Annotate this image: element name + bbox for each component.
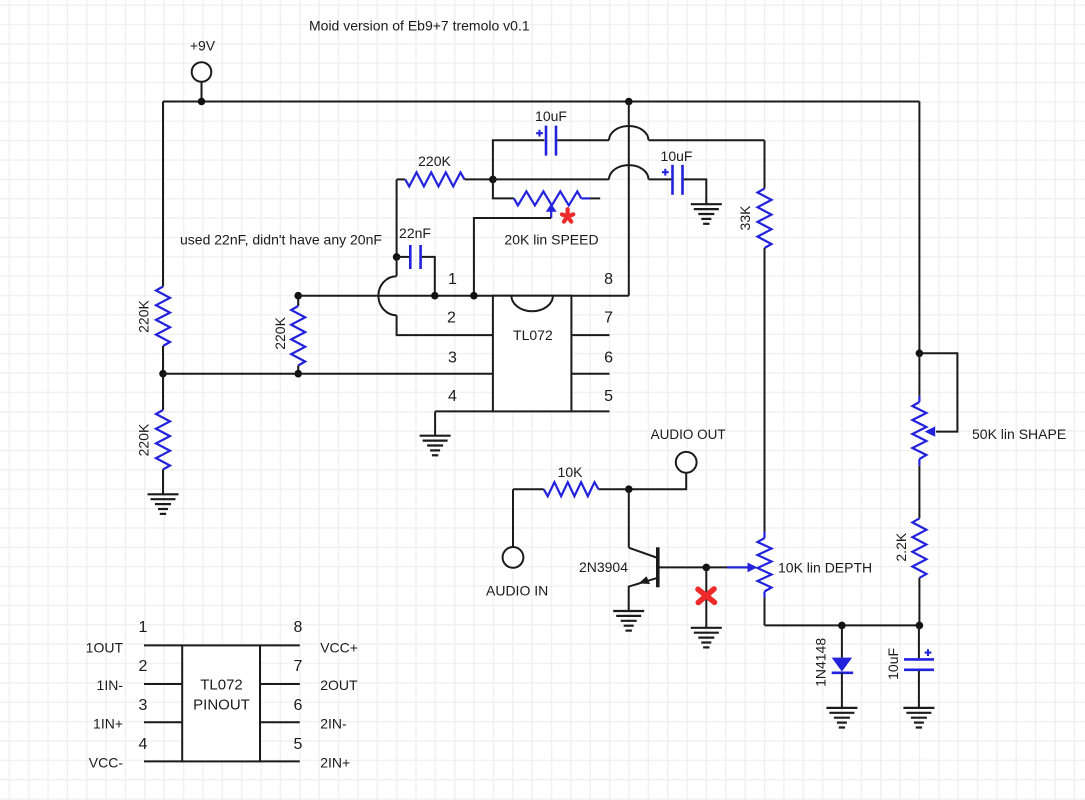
pin number 7 (604, 310, 613, 327)
resistor R3 220K middle (272, 296, 305, 374)
pinout label 1OUT (86, 640, 124, 656)
svg-text:3: 3 (139, 697, 148, 714)
svg-text:1OUT: 1OUT (86, 640, 124, 656)
wire bottom row (765, 624, 920, 626)
resistor R7 2.2K (893, 466, 926, 626)
potentiometer VR3 50K lin SHAPE (912, 353, 926, 466)
wire pinout pin6 (260, 721, 300, 723)
pin number 3 (448, 350, 457, 367)
power terminal +9V (190, 38, 216, 102)
svg-text:8: 8 (294, 619, 303, 636)
wiper arrow VR1 (474, 204, 557, 296)
pinout number 3 (139, 697, 148, 714)
pinout number 8 (294, 619, 303, 636)
pinout label 2IN+ (320, 755, 350, 771)
ground pin4 (420, 436, 451, 456)
svg-text:5: 5 (294, 736, 303, 753)
wire pinout pin4 (144, 760, 182, 762)
wire pinout pin1 (144, 644, 182, 646)
resistor R4 220K (397, 153, 493, 186)
svg-text:10uF: 10uF (535, 108, 567, 124)
pin number 4 (448, 388, 457, 405)
resistor R5 33K (737, 140, 771, 248)
junction top rail to pin8 branch (625, 98, 633, 106)
svg-text:1IN+: 1IN+ (93, 716, 123, 732)
ground diode (826, 708, 857, 728)
svg-text:33K: 33K (737, 205, 753, 231)
wire pin4 to ground (435, 411, 493, 435)
svg-text:TL072: TL072 (200, 677, 243, 694)
pinout label 1IN+ (93, 716, 123, 732)
pin number 8 (604, 271, 613, 288)
svg-text:VCC-: VCC- (89, 755, 124, 771)
svg-text:2.2K: 2.2K (893, 532, 909, 561)
svg-text:2IN+: 2IN+ (320, 755, 350, 771)
wire right rail down to SHAPE node (918, 102, 920, 354)
wiper loop VR3 (919, 353, 957, 437)
svg-text:20K lin SPEED: 20K lin SPEED (504, 231, 598, 247)
pinout number 7 (294, 658, 303, 675)
junction 22nF left node (393, 253, 401, 261)
svg-text:Moid version of Eb9+7 tremolo: Moid version of Eb9+7 tremolo v0.1 (309, 18, 530, 34)
op-amp U2 TL072 pinout box (182, 645, 260, 761)
junction 22nF right on pin1 wire (431, 292, 439, 300)
junction node pin3 left (159, 370, 167, 378)
potentiometer VR2 10K lin DEPTH (758, 532, 772, 626)
resistor R1 220K upper-left (135, 287, 170, 374)
junction base node (703, 564, 711, 572)
wire pinout pin7 (260, 683, 300, 685)
title text (309, 18, 530, 34)
junction diode node (838, 622, 846, 630)
svg-text:1N4148: 1N4148 (813, 638, 829, 687)
label VR1 (504, 231, 598, 247)
svg-text:220K: 220K (418, 153, 451, 169)
pinout number 1 (139, 619, 148, 636)
junction SHAPE top node (916, 350, 924, 358)
ground emitter (613, 611, 644, 631)
wire pin5 stub (571, 410, 609, 412)
svg-text:4: 4 (139, 736, 148, 753)
potentiometer VR1 20K lin SPEED (493, 179, 600, 205)
svg-text:AUDIO IN: AUDIO IN (486, 583, 548, 599)
ground R2 (148, 494, 179, 514)
pin number 1 (448, 271, 457, 288)
svg-text:TL072: TL072 (513, 327, 553, 343)
capacitor C2 10uF (535, 108, 567, 156)
svg-text:2N3904: 2N3904 (579, 559, 628, 575)
op-amp U1 TL072 (493, 296, 572, 412)
pinout label 2OUT (320, 677, 358, 693)
svg-text:used 22nF, didn't have any 20n: used 22nF, didn't have any 20nF (180, 232, 382, 248)
wire node A up-stub (493, 140, 544, 179)
pin number 6 (604, 350, 613, 367)
svg-text:4: 4 (448, 388, 457, 405)
svg-text:10uF: 10uF (661, 148, 693, 164)
wire pin6 stub (571, 373, 609, 375)
ground base node (691, 628, 722, 648)
svg-text:2IN-: 2IN- (320, 716, 347, 732)
junction R3 top on pin1 wire (294, 292, 302, 300)
svg-text:8: 8 (604, 271, 613, 288)
svg-text:2: 2 (447, 310, 456, 327)
pinout label VCC- (89, 755, 124, 771)
resistor R2 220K lower-left (135, 374, 170, 495)
pin number 5 (604, 388, 613, 405)
svg-text:1: 1 (139, 619, 148, 636)
wire pinout pin2 (144, 683, 182, 685)
svg-text:6: 6 (604, 350, 613, 367)
wire node A right with hop (493, 165, 672, 179)
wire vertical to pin2 with hop (378, 257, 492, 335)
wire base node to ground (705, 567, 707, 627)
svg-text:10K lin DEPTH: 10K lin DEPTH (778, 560, 872, 576)
pinout number 2 (139, 658, 148, 675)
svg-text:50K lin SHAPE: 50K lin SHAPE (972, 426, 1066, 442)
note text (180, 232, 382, 248)
wire audio out node (629, 473, 686, 490)
svg-text:10uF: 10uF (885, 648, 901, 680)
svg-text:5: 5 (604, 388, 613, 405)
wire pin8 vertical branch (628, 102, 630, 296)
svg-text:+9V: +9V (190, 38, 216, 54)
svg-text:2OUT: 2OUT (320, 677, 358, 693)
wire left rail down to R1 (162, 102, 164, 287)
capacitor C1 22nF (397, 225, 435, 296)
wire pin3 row (163, 373, 493, 375)
pinout label 1IN- (97, 677, 124, 693)
pinout number 4 (139, 736, 148, 753)
svg-text:VCC+: VCC+ (320, 640, 358, 656)
junction +9V on rail (198, 98, 206, 106)
wire pinout pin3 (144, 721, 182, 723)
pinout label 2IN- (320, 716, 347, 732)
ground C4 (903, 708, 934, 728)
svg-text:10K: 10K (558, 464, 584, 480)
wire to audio in (512, 489, 514, 547)
wire R4 left drop (396, 179, 398, 257)
transistor Q1 2N3904 (579, 489, 706, 611)
pinout label VCC+ (320, 640, 358, 656)
svg-text:1IN-: 1IN- (97, 677, 124, 693)
svg-text:AUDIO OUT: AUDIO OUT (651, 427, 726, 442)
wire pin7 stub (571, 334, 609, 336)
svg-text:7: 7 (294, 658, 303, 675)
wire pin1 row (298, 295, 629, 297)
svg-text:220K: 220K (272, 316, 288, 349)
diode D1 1N4148 (813, 625, 853, 708)
junction node A 4-way (489, 176, 497, 184)
wire +9V top rail (163, 101, 919, 103)
wire C2 right with hop (557, 126, 764, 140)
red asterisk marker (562, 209, 573, 221)
terminal AUDIO IN (486, 547, 548, 599)
red X marker (698, 589, 715, 603)
junction R3 bottom on pin3 wire (294, 370, 302, 378)
svg-text:6: 6 (294, 697, 303, 714)
pin number 2 (447, 310, 456, 327)
svg-text:PINOUT: PINOUT (193, 697, 250, 714)
ground C3 (691, 204, 722, 224)
wire pinout pin5 (260, 760, 300, 762)
junction wiper on pin1 wire (470, 292, 478, 300)
svg-text:1: 1 (448, 271, 457, 288)
resistor R6 10K (513, 464, 629, 496)
wire C3 to ground (684, 179, 707, 204)
capacitor C4 10uF (885, 625, 934, 708)
label VR3 (972, 426, 1066, 442)
junction bottom right (916, 622, 924, 630)
junction audio node (625, 485, 633, 493)
svg-text:220K: 220K (135, 423, 151, 456)
wire pinout pin8 (260, 644, 300, 646)
capacitor C3 10uF (661, 148, 693, 195)
pinout number 5 (294, 736, 303, 753)
svg-text:220K: 220K (135, 299, 151, 332)
svg-text:2: 2 (139, 658, 148, 675)
wiper arrow VR2 (706, 563, 757, 573)
pinout number 6 (294, 697, 303, 714)
svg-text:22nF: 22nF (399, 225, 431, 241)
terminal AUDIO OUT (651, 427, 726, 473)
wire 33K to DEPTH pot (764, 248, 766, 532)
svg-text:3: 3 (448, 350, 457, 367)
svg-text:7: 7 (604, 310, 613, 327)
label VR2 (778, 560, 872, 576)
